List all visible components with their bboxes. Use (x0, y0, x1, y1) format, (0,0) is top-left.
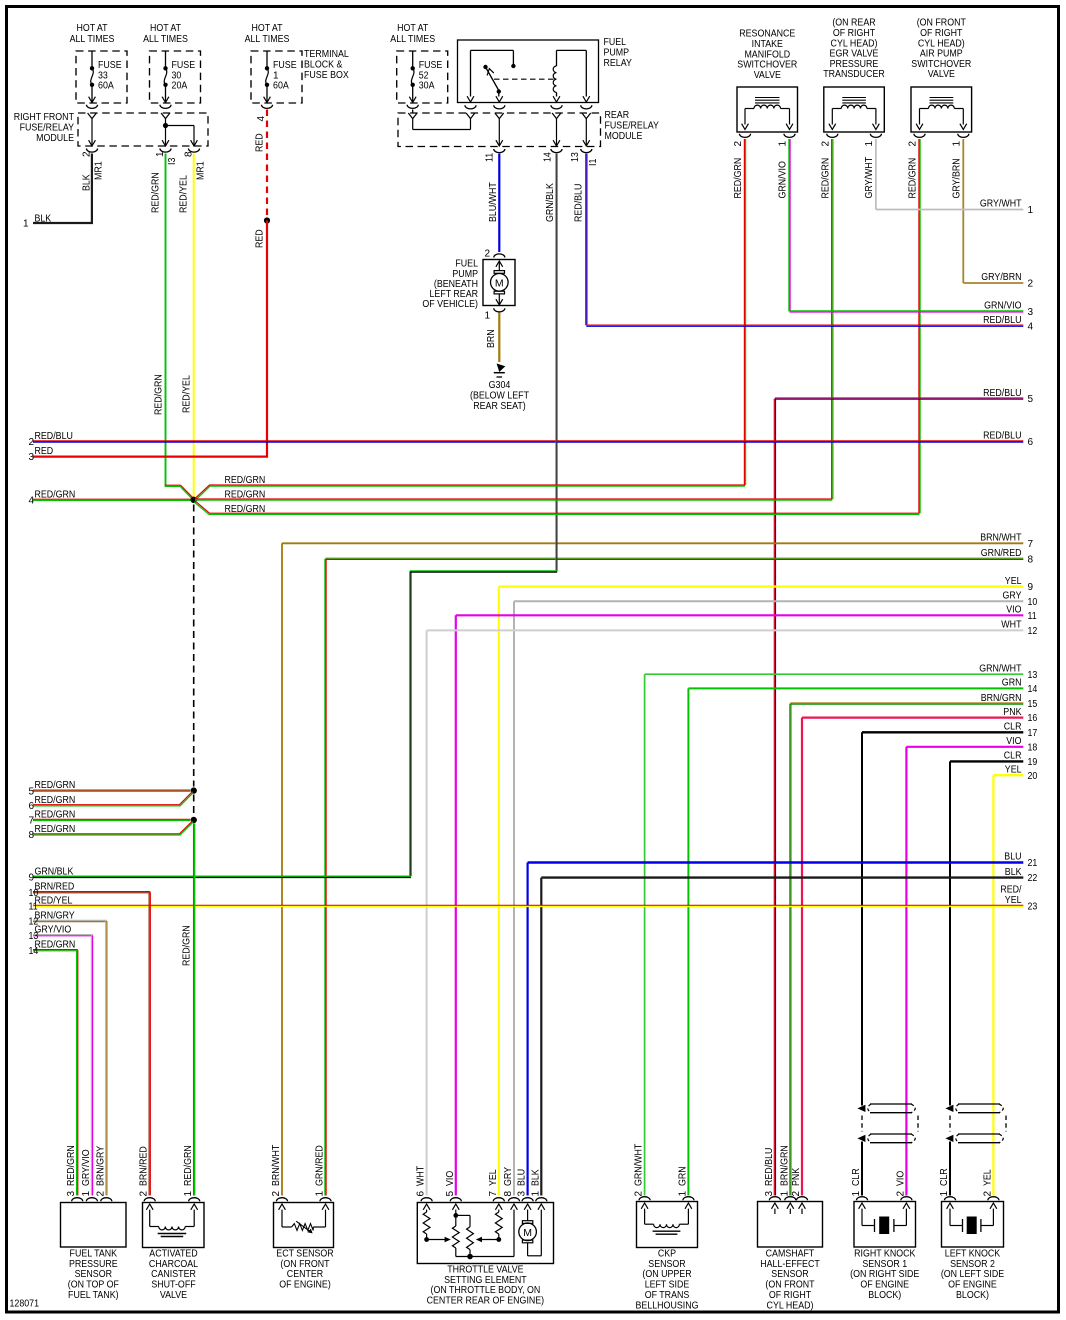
svg-text:FUEL: FUEL (604, 37, 627, 48)
svg-text:GRN/VIO: GRN/VIO (778, 161, 789, 199)
svg-text:RED/GRN: RED/GRN (182, 925, 193, 966)
svg-text:11: 11 (485, 152, 496, 162)
svg-text:CANISTER: CANISTER (151, 1269, 196, 1280)
svg-text:(ON FRONT: (ON FRONT (280, 1259, 329, 1270)
svg-text:BLOCK): BLOCK) (956, 1290, 989, 1301)
svg-text:VIO: VIO (896, 1171, 907, 1186)
svg-text:1: 1 (23, 219, 29, 230)
svg-text:OF RIGHT: OF RIGHT (769, 1290, 811, 1301)
svg-text:RED/GRN: RED/GRN (35, 809, 76, 820)
svg-text:RED/: RED/ (1000, 885, 1021, 896)
svg-text:22: 22 (1028, 873, 1038, 884)
svg-text:PNK: PNK (1003, 707, 1021, 718)
svg-text:6: 6 (1028, 437, 1034, 448)
svg-text:(ON FRONT: (ON FRONT (765, 1280, 814, 1291)
svg-text:GRN/WHT: GRN/WHT (634, 1144, 645, 1186)
svg-text:RED/GRN: RED/GRN (908, 158, 919, 199)
svg-text:1: 1 (951, 141, 962, 147)
svg-text:1: 1 (1028, 205, 1034, 216)
svg-text:RED/YEL: RED/YEL (182, 375, 193, 413)
svg-text:2: 2 (634, 1191, 645, 1197)
svg-text:RED/GRN: RED/GRN (820, 158, 831, 199)
svg-text:CLR: CLR (1004, 751, 1022, 762)
svg-text:CLR: CLR (1004, 722, 1022, 733)
svg-text:2: 2 (139, 1191, 150, 1197)
svg-text:2: 2 (271, 1191, 282, 1197)
svg-text:RED/GRN: RED/GRN (151, 172, 162, 213)
svg-text:VALVE: VALVE (754, 70, 781, 81)
svg-text:RED/YEL: RED/YEL (179, 175, 190, 213)
svg-text:(ON UPPER: (ON UPPER (642, 1269, 691, 1280)
svg-text:9: 9 (1028, 582, 1034, 593)
svg-text:RED/GRN: RED/GRN (225, 489, 266, 500)
svg-text:GRN/WHT: GRN/WHT (979, 663, 1021, 674)
svg-text:HOT AT: HOT AT (76, 23, 107, 34)
svg-text:I1: I1 (588, 158, 599, 166)
svg-text:2: 2 (791, 1191, 802, 1197)
svg-text:14: 14 (543, 152, 554, 162)
svg-text:VALVE: VALVE (928, 69, 955, 80)
svg-text:RED/GRN: RED/GRN (35, 824, 76, 835)
svg-text:CHARCOAL: CHARCOAL (149, 1259, 199, 1270)
svg-text:HOT AT: HOT AT (397, 23, 428, 34)
svg-text:HALL-EFFECT: HALL-EFFECT (760, 1259, 820, 1270)
svg-text:2: 2 (896, 1191, 907, 1197)
svg-text:PRESSURE: PRESSURE (69, 1259, 118, 1270)
svg-text:3: 3 (1028, 307, 1034, 318)
svg-text:TRANSDUCER: TRANSDUCER (823, 69, 885, 80)
svg-text:RED/BLU: RED/BLU (35, 431, 73, 442)
svg-text:8: 8 (1028, 554, 1034, 565)
svg-text:7: 7 (1028, 539, 1034, 550)
svg-text:FUEL TANK): FUEL TANK) (68, 1290, 119, 1301)
svg-text:1: 1 (155, 151, 166, 157)
svg-text:20: 20 (1028, 771, 1038, 782)
svg-text:VIO: VIO (445, 1171, 456, 1186)
svg-text:1: 1 (81, 1191, 92, 1197)
svg-text:30A: 30A (419, 80, 435, 91)
svg-text:1: 1 (864, 141, 875, 147)
svg-text:10: 10 (1028, 597, 1038, 608)
svg-text:1: 1 (851, 1191, 862, 1197)
svg-text:MODULE: MODULE (36, 133, 74, 144)
svg-text:GRN: GRN (1002, 678, 1022, 689)
svg-text:1: 1 (678, 1191, 689, 1197)
svg-text:6: 6 (416, 1191, 427, 1197)
svg-text:BLU/WHT: BLU/WHT (488, 182, 499, 222)
svg-text:ALL TIMES: ALL TIMES (390, 34, 435, 45)
svg-text:1: 1 (778, 141, 789, 147)
svg-text:GRY/VIO: GRY/VIO (81, 1149, 92, 1186)
svg-text:I3: I3 (167, 157, 178, 165)
svg-text:GRY/VIO: GRY/VIO (35, 925, 72, 936)
svg-text:FUSE/RELAY: FUSE/RELAY (20, 123, 75, 134)
svg-text:BRN: BRN (486, 329, 497, 348)
svg-text:3: 3 (66, 1191, 77, 1197)
svg-text:RED/GRN: RED/GRN (35, 795, 76, 806)
svg-text:BLOCK): BLOCK) (868, 1290, 901, 1301)
svg-text:RED/GRN: RED/GRN (154, 374, 165, 415)
svg-text:GRY/WHT: GRY/WHT (864, 157, 875, 199)
svg-text:CLR: CLR (851, 1168, 862, 1186)
svg-text:ALL TIMES: ALL TIMES (143, 34, 188, 45)
svg-text:OF VEHICLE): OF VEHICLE) (422, 299, 478, 310)
svg-text:13: 13 (1028, 670, 1038, 681)
svg-text:(ON RIGHT SIDE: (ON RIGHT SIDE (850, 1269, 919, 1280)
svg-text:WHT: WHT (416, 1166, 427, 1186)
svg-text:GRY/WHT: GRY/WHT (980, 199, 1022, 210)
svg-text:3: 3 (517, 1191, 528, 1197)
svg-text:2: 2 (733, 141, 744, 147)
svg-text:14: 14 (1028, 684, 1038, 695)
svg-text:1: 1 (484, 311, 490, 322)
svg-text:CLR: CLR (939, 1168, 950, 1186)
svg-text:TERMINAL: TERMINAL (304, 49, 349, 60)
svg-text:BLK: BLK (35, 214, 52, 225)
svg-text:HOT AT: HOT AT (150, 23, 181, 34)
svg-text:1: 1 (315, 1191, 326, 1197)
svg-text:YEL: YEL (1005, 576, 1022, 587)
svg-text:BLOCK &: BLOCK & (304, 60, 343, 71)
svg-text:2: 2 (908, 141, 919, 147)
svg-text:GRY: GRY (503, 1167, 514, 1186)
svg-text:FUSE/RELAY: FUSE/RELAY (605, 120, 660, 131)
svg-text:BLU: BLU (1004, 852, 1021, 863)
svg-text:CAMSHAFT: CAMSHAFT (766, 1249, 815, 1260)
svg-text:YEL: YEL (1005, 764, 1022, 775)
svg-text:M: M (495, 277, 504, 289)
svg-text:OF ENGINE): OF ENGINE) (279, 1280, 331, 1291)
svg-text:PNK: PNK (791, 1168, 802, 1186)
svg-text:CENTER: CENTER (287, 1269, 323, 1280)
svg-text:CKP: CKP (658, 1249, 676, 1260)
svg-text:BRN/GRN: BRN/GRN (981, 693, 1022, 704)
svg-text:4: 4 (256, 116, 267, 122)
svg-text:GRN/BLK: GRN/BLK (545, 183, 556, 222)
svg-text:SENSOR: SENSOR (771, 1269, 808, 1280)
svg-text:BRN/WHT: BRN/WHT (980, 533, 1021, 544)
svg-text:G304: G304 (489, 380, 511, 391)
svg-text:GRY/BRN: GRY/BRN (981, 272, 1021, 283)
svg-text:RED/GRN: RED/GRN (35, 780, 76, 791)
svg-text:RED: RED (35, 446, 54, 457)
svg-text:2: 2 (983, 1191, 994, 1197)
svg-text:4: 4 (1028, 321, 1034, 332)
svg-text:1: 1 (183, 1191, 194, 1197)
svg-text:MR1: MR1 (196, 161, 207, 180)
svg-text:ECT SENSOR: ECT SENSOR (276, 1249, 333, 1260)
svg-text:HOT AT: HOT AT (251, 23, 282, 34)
svg-text:PUMP: PUMP (604, 47, 630, 58)
svg-text:RED/BLU: RED/BLU (574, 184, 585, 222)
svg-text:FUSE BOX: FUSE BOX (304, 70, 349, 81)
svg-text:RED/BLU: RED/BLU (983, 431, 1021, 442)
svg-text:REAR: REAR (605, 110, 630, 121)
svg-text:ACTIVATED: ACTIVATED (149, 1249, 197, 1260)
svg-text:GRY/BRN: GRY/BRN (951, 158, 962, 198)
svg-text:LEFT SIDE: LEFT SIDE (645, 1280, 690, 1291)
svg-text:SENSOR: SENSOR (75, 1269, 112, 1280)
svg-text:60A: 60A (98, 80, 114, 91)
svg-text:128071: 128071 (10, 1299, 40, 1310)
svg-text:18: 18 (1028, 742, 1038, 753)
svg-text:BLK: BLK (530, 1169, 541, 1186)
svg-text:11: 11 (1028, 611, 1038, 622)
svg-text:GRN/VIO: GRN/VIO (984, 301, 1022, 312)
svg-text:MODULE: MODULE (605, 131, 643, 142)
svg-text:YEL: YEL (1005, 895, 1022, 906)
svg-text:BRN/RED: BRN/RED (35, 882, 75, 893)
svg-text:RED/GRN: RED/GRN (225, 475, 266, 486)
svg-text:GRY: GRY (1003, 591, 1022, 602)
svg-text:REAR SEAT): REAR SEAT) (473, 401, 526, 412)
svg-text:SENSOR 2: SENSOR 2 (950, 1259, 995, 1270)
svg-text:RED/GRN: RED/GRN (733, 158, 744, 199)
svg-text:1: 1 (530, 1191, 541, 1197)
svg-text:1: 1 (779, 1191, 790, 1197)
svg-text:RED/GRN: RED/GRN (35, 489, 76, 500)
svg-text:OF ENGINE: OF ENGINE (860, 1280, 909, 1291)
svg-text:RED/GRN: RED/GRN (35, 940, 76, 951)
svg-text:RED/GRN: RED/GRN (66, 1145, 77, 1186)
svg-text:YEL: YEL (983, 1169, 994, 1186)
svg-text:2: 2 (1028, 279, 1034, 290)
svg-text:VIO: VIO (1006, 605, 1021, 616)
svg-text:1: 1 (939, 1191, 950, 1197)
svg-text:YEL: YEL (488, 1169, 499, 1186)
svg-text:16: 16 (1028, 713, 1038, 724)
svg-text:RIGHT KNOCK: RIGHT KNOCK (854, 1249, 916, 1260)
svg-text:SHUT-OFF: SHUT-OFF (151, 1280, 195, 1291)
svg-text:RED/YEL: RED/YEL (35, 895, 73, 906)
svg-text:BLK: BLK (1005, 867, 1022, 878)
svg-text:20A: 20A (172, 80, 188, 91)
svg-text:OF ENGINE: OF ENGINE (948, 1280, 997, 1291)
svg-text:VIO: VIO (1006, 736, 1021, 747)
svg-text:BLK: BLK (82, 174, 93, 191)
svg-text:(ON TOP OF: (ON TOP OF (68, 1280, 119, 1291)
svg-text:RELAY: RELAY (604, 58, 633, 69)
svg-text:GRN/BLK: GRN/BLK (35, 866, 74, 877)
svg-text:21: 21 (1028, 858, 1038, 869)
svg-text:BRN/GRY: BRN/GRY (95, 1146, 106, 1186)
svg-text:SENSOR 1: SENSOR 1 (862, 1259, 907, 1270)
svg-text:WHT: WHT (1001, 620, 1021, 631)
svg-text:3: 3 (764, 1191, 775, 1197)
svg-text:2: 2 (95, 1191, 106, 1197)
svg-text:BELLHOUSING: BELLHOUSING (636, 1300, 699, 1311)
svg-text:RED/GRN: RED/GRN (225, 504, 266, 515)
svg-text:GRN/RED: GRN/RED (981, 548, 1022, 559)
svg-text:60A: 60A (273, 80, 289, 91)
svg-text:ALL TIMES: ALL TIMES (70, 34, 115, 45)
svg-text:M: M (523, 1227, 532, 1239)
svg-text:RED/BLU: RED/BLU (983, 388, 1021, 399)
svg-text:LEFT KNOCK: LEFT KNOCK (945, 1249, 1001, 1260)
svg-text:5: 5 (445, 1191, 456, 1197)
svg-text:RED/BLU: RED/BLU (764, 1148, 775, 1186)
svg-text:5: 5 (1028, 394, 1034, 405)
svg-text:ALL TIMES: ALL TIMES (245, 34, 290, 45)
svg-text:SENSOR: SENSOR (648, 1259, 685, 1270)
svg-text:19: 19 (1028, 757, 1038, 768)
svg-text:RED/BLU: RED/BLU (983, 315, 1021, 326)
svg-text:GRN: GRN (678, 1166, 689, 1186)
svg-text:8: 8 (503, 1191, 514, 1197)
svg-text:RIGHT FRONT: RIGHT FRONT (14, 112, 74, 123)
svg-text:15: 15 (1028, 699, 1038, 710)
svg-text:7: 7 (488, 1191, 499, 1197)
svg-text:(ON LEFT SIDE: (ON LEFT SIDE (941, 1269, 1005, 1280)
svg-text:BRN/RED: BRN/RED (139, 1146, 150, 1186)
svg-text:RED/GRN: RED/GRN (183, 1145, 194, 1186)
svg-text:BLU: BLU (517, 1169, 528, 1186)
svg-text:BRN/GRY: BRN/GRY (35, 911, 75, 922)
svg-text:13: 13 (570, 152, 581, 162)
svg-text:BRN/WHT: BRN/WHT (271, 1145, 282, 1186)
svg-text:17: 17 (1028, 728, 1038, 739)
svg-text:RED: RED (255, 133, 266, 152)
svg-text:MR1: MR1 (94, 161, 105, 180)
svg-text:2: 2 (484, 249, 490, 260)
svg-text:OF TRANS: OF TRANS (645, 1290, 690, 1301)
svg-text:VALVE: VALVE (160, 1290, 187, 1301)
svg-text:CENTER REAR OF ENGINE): CENTER REAR OF ENGINE) (427, 1295, 545, 1306)
svg-text:BRN/GRN: BRN/GRN (779, 1145, 790, 1186)
svg-text:RED: RED (255, 229, 266, 248)
svg-text:CYL HEAD): CYL HEAD) (767, 1300, 814, 1311)
svg-text:GRN/RED: GRN/RED (315, 1145, 326, 1186)
svg-text:2: 2 (820, 141, 831, 147)
svg-text:12: 12 (1028, 626, 1038, 637)
svg-text:23: 23 (1028, 902, 1038, 913)
svg-text:FUEL TANK: FUEL TANK (70, 1249, 118, 1260)
